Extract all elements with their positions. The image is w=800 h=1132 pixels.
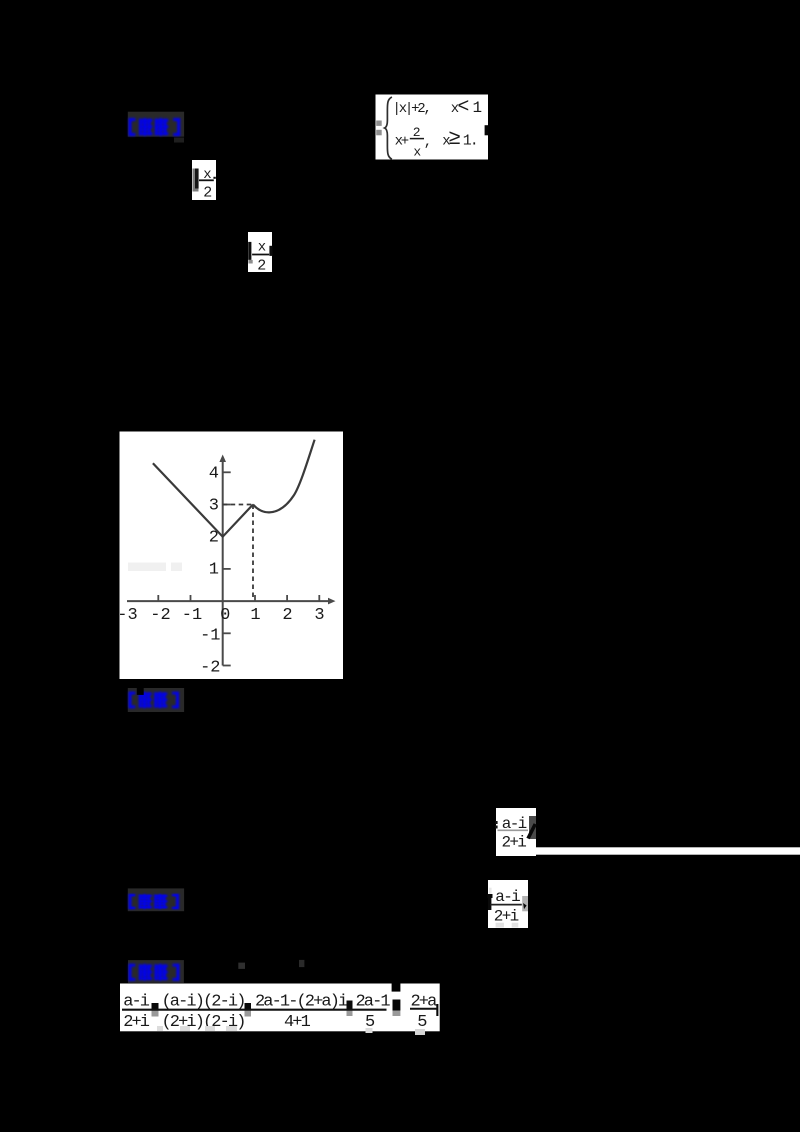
- piecewise row1: |x|+2, x<1: [393, 95, 482, 117]
- label 1 blue text: [129, 118, 181, 136]
- svg-text:-3: -3: [117, 606, 137, 625]
- V curve |x|+2: [153, 463, 253, 536]
- y-axis: [222, 459, 224, 666]
- faint watermark inside graph: [128, 563, 166, 572]
- svg-text:3: 3: [314, 606, 324, 625]
- light shadows at band bottom: [157, 1026, 163, 1031]
- svg-text:a-i: a-i: [495, 888, 520, 906]
- svg-text:2: 2: [203, 185, 211, 202]
- label 1 highlight box: [128, 112, 184, 137]
- x ticks: [158, 595, 319, 602]
- piecewise function white image: [376, 95, 489, 160]
- curve x+2/x: [253, 440, 315, 513]
- fraction image (a-i)/(2+i) lower: [488, 880, 528, 928]
- svg-text:-1: -1: [200, 627, 220, 646]
- dashed guide lines: [223, 504, 253, 506]
- svg-text:-2: -2: [150, 606, 170, 625]
- svg-text:2+i: 2+i: [123, 1013, 150, 1032]
- label 3 highlight box: [128, 888, 184, 911]
- fraction image x/2 (second): [248, 232, 272, 272]
- small dark marks above equation band: [238, 963, 245, 969]
- equation band white image: [120, 984, 440, 1032]
- graph white image: [120, 432, 344, 680]
- piecewise left brace: [385, 97, 392, 159]
- fraction bars: [122, 1009, 387, 1011]
- white underline strip to page edge: [536, 847, 800, 854]
- black notch at top of band: [392, 984, 401, 992]
- svg-text:x+: x+: [395, 133, 409, 149]
- svg-text:≥: ≥: [449, 126, 461, 149]
- svg-text:2: 2: [282, 606, 292, 625]
- svg-text:x: x: [258, 239, 266, 255]
- equals sign fragment left of piecewise image: [376, 121, 382, 136]
- label 2 blue text: [129, 692, 179, 708]
- svg-text:<: <: [458, 95, 470, 117]
- svg-text:1.: 1.: [463, 132, 477, 149]
- fraction image x/2 (first): [192, 160, 216, 200]
- svg-text:1: 1: [250, 606, 260, 625]
- svg-text:1: 1: [473, 99, 482, 117]
- black mark at right edge of piecewise image: [485, 125, 489, 135]
- svg-text:2+i: 2+i: [502, 834, 527, 852]
- label 4 highlight box: [128, 960, 184, 983]
- svg-text:-2: -2: [200, 659, 220, 678]
- black notch over label 2: [137, 685, 144, 695]
- svg-text:2: 2: [413, 125, 420, 140]
- svg-text:,: ,: [424, 135, 431, 151]
- fraction image (a-i)/(2+i) upper: [496, 808, 536, 856]
- svg-text:0: 0: [220, 606, 230, 625]
- label 2 highlight box: [128, 688, 184, 712]
- svg-text:2: 2: [257, 258, 265, 275]
- svg-text:4: 4: [209, 465, 219, 484]
- y ticks: [223, 472, 231, 665]
- svg-text:1: 1: [209, 561, 219, 580]
- piecewise row2: x+2/x, x>=1.: [395, 125, 477, 160]
- x-axis: [127, 600, 332, 602]
- svg-text:4+1: 4+1: [284, 1013, 311, 1032]
- axis number labels: [117, 465, 324, 678]
- label 4 blue text: [129, 964, 180, 981]
- svg-text:|x|+2,: |x|+2,: [393, 101, 430, 117]
- faint mark below label 1: [174, 138, 184, 143]
- svg-text:-1: -1: [182, 606, 202, 625]
- svg-text:3: 3: [209, 497, 219, 516]
- label 3 blue text: [129, 894, 179, 909]
